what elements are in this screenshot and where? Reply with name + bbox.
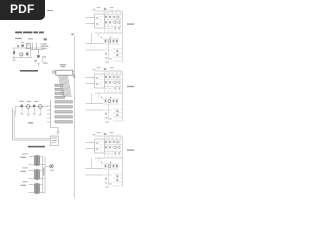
resistor R21 bbox=[33, 105, 35, 108]
label text above B3 bbox=[34, 101, 39, 102]
junction box JB bbox=[50, 136, 58, 146]
wire long vertical divider bbox=[74, 36, 76, 198]
wire drop B4 bbox=[39, 109, 41, 114]
label text right c bbox=[42, 48, 47, 49]
resistor R10 bbox=[21, 44, 23, 46]
label text above B2 bbox=[27, 101, 32, 102]
net label FIG 3A bbox=[127, 23, 134, 24]
node subtitle dash 1 bbox=[15, 38, 22, 39]
pin bar P7 bbox=[55, 111, 72, 113]
wire stub low bbox=[43, 58, 45, 62]
label text right b bbox=[41, 46, 49, 47]
node caption figure1 bbox=[20, 70, 38, 72]
diode D1 bbox=[13, 51, 15, 54]
resistor R11 bbox=[26, 52, 28, 55]
pin bar P6 bbox=[55, 106, 72, 108]
amplifier block 1 bbox=[86, 7, 123, 63]
node subtitle dash 2 bbox=[28, 38, 33, 39]
ground GB1 bbox=[21, 113, 24, 114]
label R10 bbox=[21, 42, 25, 43]
wire ladder vertical bbox=[50, 100, 52, 128]
transformer T3 bbox=[20, 181, 45, 194]
wire L route inner bbox=[14, 110, 52, 138]
wire rail A2 bbox=[12, 57, 32, 59]
label connector title bbox=[60, 64, 67, 67]
net label fig4 bbox=[28, 122, 33, 123]
pin stub L5 bbox=[47, 121, 51, 123]
ground G11 bbox=[13, 60, 16, 61]
pdf badge bbox=[0, 0, 45, 20]
wire twin vert 2 bbox=[36, 43, 38, 50]
wire badge dash bbox=[47, 10, 53, 11]
resistor R12 bbox=[37, 55, 40, 57]
amplifier block 3 bbox=[86, 132, 123, 188]
relay K1 box bbox=[26, 43, 30, 48]
transistor Q21 bbox=[39, 105, 43, 109]
resistor R20 bbox=[21, 105, 23, 108]
label R12 bbox=[42, 56, 46, 57]
pin bar P2 bbox=[55, 88, 63, 90]
wire emitter stub bbox=[13, 58, 15, 61]
pin stub L3 bbox=[47, 113, 51, 115]
label text right a bbox=[41, 43, 47, 44]
wire drop B1 bbox=[21, 108, 23, 113]
wire drop B2 bbox=[27, 109, 29, 114]
pin bar P5 bbox=[55, 101, 72, 103]
label PDF bbox=[0, 0, 45, 20]
wire rail A1 bbox=[12, 47, 44, 49]
wire rail A3 bbox=[31, 49, 45, 51]
label text above B1 bbox=[19, 101, 24, 102]
ground GB3 bbox=[33, 113, 36, 114]
pin bar P9 bbox=[55, 121, 72, 123]
wire rail B1 bbox=[15, 106, 48, 108]
wire bus left bbox=[42, 156, 44, 192]
net label divider top bbox=[71, 33, 73, 35]
net label FIG 3C bbox=[127, 149, 134, 150]
net label bus vertical bbox=[43, 168, 44, 176]
label connector left bbox=[52, 71, 56, 74]
wire L route outer bbox=[12, 108, 52, 140]
node title text bbox=[15, 32, 44, 34]
transformer T2 bbox=[20, 167, 45, 180]
label text low bbox=[43, 63, 47, 64]
transformer T1 bbox=[20, 153, 45, 166]
ground G10 bbox=[37, 63, 40, 65]
ground GB4 bbox=[39, 114, 42, 115]
wire left vert B bbox=[15, 107, 17, 116]
wire ladder bottom bbox=[51, 128, 58, 133]
wire twin vert 1 bbox=[32, 43, 34, 50]
diode D2 right of box bbox=[73, 75, 75, 78]
node subtitle dash 3 bbox=[44, 38, 47, 40]
pin bar P3 bbox=[55, 92, 64, 94]
pin stub L1 bbox=[47, 105, 51, 107]
wire lamp stub bbox=[45, 165, 50, 167]
lamp DS1 bbox=[50, 165, 53, 168]
pin mark J1 right bbox=[73, 71, 75, 73]
transistor Q20 bbox=[27, 105, 31, 109]
ground GL bbox=[56, 132, 59, 134]
node caption figure2 bbox=[28, 146, 45, 148]
wire ribbon fan bbox=[59, 75, 72, 97]
net label FIG 3B bbox=[127, 86, 134, 87]
wire left vert A bbox=[13, 48, 15, 58]
pin bar P8 bbox=[55, 116, 72, 118]
pin stub L2 bbox=[47, 109, 51, 111]
connector J1 box bbox=[56, 70, 73, 75]
capacitor C10 bbox=[17, 45, 19, 48]
ground GB2 bbox=[27, 114, 30, 115]
transistor Q10 bbox=[20, 53, 23, 56]
pin bar P4 bbox=[55, 96, 65, 98]
wire right vert A bbox=[30, 48, 32, 58]
pin stub L4 bbox=[47, 117, 51, 119]
wire bus right bbox=[44, 156, 46, 192]
wire drop B3 bbox=[33, 108, 35, 113]
amplifier block 2 bbox=[86, 67, 123, 123]
pin bar P1 bbox=[55, 84, 63, 86]
wire drop B bbox=[38, 50, 40, 55]
label lamp bbox=[50, 170, 54, 171]
capacitor C11 bbox=[35, 61, 37, 62]
